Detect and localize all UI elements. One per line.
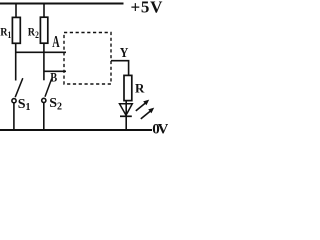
svg-text:A: A xyxy=(52,32,59,50)
svg-text:R1: R1 xyxy=(0,26,11,40)
svg-text:S1: S1 xyxy=(18,97,31,113)
svg-text:0V: 0V xyxy=(152,122,168,138)
svg-text:Y: Y xyxy=(120,44,129,60)
svg-text:S2: S2 xyxy=(49,96,62,112)
svg-text:B: B xyxy=(50,70,57,84)
svg-text:+5V: +5V xyxy=(131,0,164,17)
svg-text:R2: R2 xyxy=(28,26,39,40)
svg-text:R: R xyxy=(135,81,145,96)
